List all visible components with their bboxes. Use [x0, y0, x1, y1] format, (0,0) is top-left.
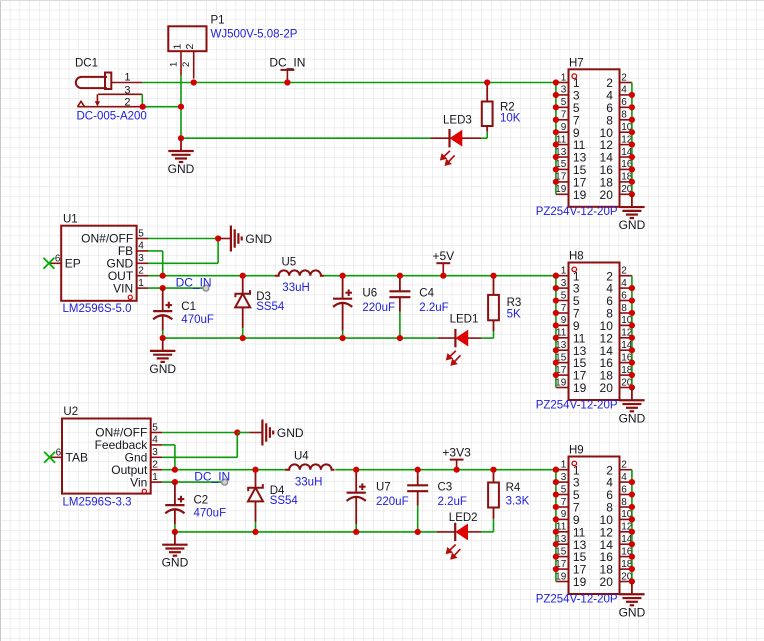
- U2 pin numbers: [152, 422, 158, 483]
- connector H8 pin names: [573, 269, 613, 395]
- svg-text:5: 5: [561, 97, 567, 108]
- capacitor C3: [407, 470, 428, 532]
- junction D3 top: [240, 273, 246, 279]
- U1 pin stubs right: [137, 239, 148, 289]
- wire U1 GND pin to drop: [148, 262, 218, 264]
- svg-text:GND: GND: [619, 605, 646, 619]
- junction U1 ON#/OFF ground: [215, 235, 221, 241]
- wire U1 VIN to DC_IN: [148, 287, 206, 289]
- dangling wire end circle DC_IN: [203, 285, 209, 291]
- svg-text:WJ500V-5.08-2P: WJ500V-5.08-2P: [211, 28, 298, 40]
- svg-text:7: 7: [561, 303, 567, 314]
- junction +5V flag: [440, 273, 446, 279]
- svg-text:3: 3: [152, 447, 158, 458]
- svg-text:C2: C2: [194, 495, 209, 507]
- junction R2 top / DC_IN rail: [484, 79, 490, 85]
- svg-text:1: 1: [561, 460, 567, 471]
- inductor U4: [285, 464, 334, 469]
- P1 pin 2: [193, 51, 195, 78]
- wire DC_IN top rail: [142, 82, 556, 84]
- connector H9 body: [569, 457, 620, 595]
- svg-text:3: 3: [124, 84, 130, 96]
- svg-text:LM2596S-3.3: LM2596S-3.3: [63, 496, 132, 508]
- svg-text:H7: H7: [569, 57, 584, 69]
- connector H8 right pins 2-20: [620, 276, 632, 388]
- junction dots H9 right bus: [629, 479, 635, 585]
- junction +3V3 flag: [454, 467, 460, 473]
- wire DC1 pin3 drop: [141, 94, 143, 106]
- junction D4 top: [252, 467, 258, 473]
- DC1 pin 2 with switch contact: [78, 94, 143, 106]
- svg-text:7: 7: [561, 497, 567, 508]
- svg-text:EP: EP: [65, 257, 81, 271]
- ground GND under C2: [162, 532, 189, 570]
- IC U2 body: [62, 419, 151, 494]
- DC1 pin 3: [98, 93, 142, 95]
- svg-text:GND: GND: [245, 232, 272, 246]
- svg-text:2: 2: [152, 460, 158, 471]
- junction U2 ON#/OFF ground: [234, 429, 240, 435]
- svg-text:20: 20: [600, 188, 614, 202]
- svg-text:3.3K: 3.3K: [506, 495, 530, 507]
- wire H7 left bus: [555, 83, 557, 195]
- wire +3V3 rail right part: [335, 469, 556, 471]
- connector H9 right pins 2-20: [620, 470, 632, 582]
- svg-text:LM2596S-5.0: LM2596S-5.0: [63, 303, 132, 315]
- power flag +5V: [432, 249, 454, 276]
- svg-text:19: 19: [573, 381, 587, 395]
- svg-text:2: 2: [138, 266, 144, 277]
- connector H8 pin numbers: [555, 266, 633, 389]
- svg-text:1: 1: [138, 278, 144, 289]
- svg-text:1: 1: [561, 72, 567, 83]
- svg-text:2.2uF: 2.2uF: [419, 302, 448, 314]
- svg-text:20: 20: [600, 381, 614, 395]
- svg-text:4: 4: [621, 278, 627, 289]
- wire +5V rail right part: [324, 275, 556, 277]
- svg-text:SS54: SS54: [256, 301, 285, 313]
- wire U2 ON#/OFF ground drop: [236, 433, 238, 458]
- svg-text:+3V3: +3V3: [442, 445, 471, 459]
- capacitor C2: [165, 482, 184, 532]
- svg-text:1: 1: [171, 44, 183, 50]
- svg-text:7: 7: [561, 110, 567, 121]
- svg-text:GND: GND: [168, 162, 195, 176]
- junction C2 / ground rail: [172, 529, 178, 535]
- ground H9: [619, 581, 646, 619]
- U2 pin names: [95, 426, 149, 494]
- P1 pin 1: [180, 51, 182, 76]
- wire P1 pin1 vertical: [180, 76, 182, 138]
- ground H7: [619, 194, 646, 232]
- svg-text:4: 4: [621, 85, 627, 96]
- svg-text:1: 1: [561, 266, 567, 277]
- svg-text:19: 19: [555, 184, 567, 195]
- wire LED1 pins: [438, 337, 494, 339]
- svg-text:U5: U5: [282, 256, 297, 268]
- junction DC_IN flag: [284, 79, 290, 85]
- svg-text:LED2: LED2: [449, 512, 478, 524]
- wire H9 right bus: [631, 470, 633, 582]
- svg-text:PZ254V-12-20P: PZ254V-12-20P: [536, 399, 618, 411]
- svg-text:5: 5: [561, 484, 567, 495]
- svg-text:PZ254V-12-20P: PZ254V-12-20P: [536, 206, 618, 218]
- svg-text:3: 3: [561, 85, 567, 96]
- svg-text:LED1: LED1: [450, 313, 479, 325]
- no-connect X on U1 EP: [43, 258, 54, 269]
- svg-text:19: 19: [555, 571, 567, 582]
- svg-text:U1: U1: [63, 213, 78, 225]
- svg-text:1: 1: [152, 472, 158, 483]
- svg-text:4: 4: [152, 435, 158, 446]
- IC U1 body: [61, 226, 136, 301]
- connector H7 body: [569, 69, 620, 207]
- svg-text:4: 4: [621, 472, 627, 483]
- svg-text:470uF: 470uF: [181, 314, 214, 326]
- connector H9 pin numbers: [555, 460, 633, 583]
- svg-text:6: 6: [55, 253, 61, 264]
- svg-text:470uF: 470uF: [194, 508, 227, 520]
- resistor R2: [482, 83, 493, 139]
- junction +5V rail / H8 bus: [553, 273, 559, 279]
- svg-text:SS54: SS54: [270, 495, 299, 507]
- junction VIN / C1: [160, 285, 166, 291]
- net flag DC_IN top: [269, 56, 305, 83]
- connector H8 left pins 1-19: [556, 276, 569, 388]
- wire bottom ground rail: [175, 531, 437, 533]
- svg-text:2: 2: [621, 460, 627, 471]
- junction D3 bottom: [240, 335, 246, 341]
- junction U7 top: [353, 467, 359, 473]
- capacitor U6: [333, 276, 352, 338]
- svg-text:VIN: VIN: [113, 281, 133, 295]
- svg-text:8: 8: [621, 497, 627, 508]
- svg-text:2: 2: [621, 72, 627, 83]
- capacitor C4: [389, 276, 410, 338]
- junction Feedback/Output: [172, 467, 178, 473]
- svg-text:GND: GND: [619, 218, 646, 232]
- connector H7 right pins 2-20: [620, 83, 632, 195]
- svg-text:LED3: LED3: [443, 115, 472, 127]
- svg-text:5: 5: [138, 228, 144, 239]
- capacitor C1: [153, 288, 172, 338]
- svg-text:8: 8: [621, 110, 627, 121]
- resistor R3: [488, 276, 499, 339]
- wire LED2 pins: [437, 531, 494, 533]
- svg-text:220uF: 220uF: [362, 302, 395, 314]
- junction C4 top: [397, 273, 403, 279]
- wire H7 right bus: [631, 83, 633, 195]
- svg-text:5: 5: [152, 422, 158, 433]
- wire +5V rail left part: [148, 275, 274, 277]
- svg-text:33uH: 33uH: [295, 476, 323, 488]
- svg-text:9: 9: [561, 509, 567, 520]
- junction R3 top: [490, 273, 496, 279]
- U1 pin 6 EP: [49, 253, 81, 270]
- junction DC1 pin2/pin3: [140, 104, 146, 110]
- svg-text:1: 1: [124, 71, 130, 83]
- ground GND under DC jack net: [168, 138, 195, 176]
- U2 pin stubs right: [151, 433, 162, 483]
- svg-text:C3: C3: [438, 482, 453, 494]
- ground H8: [619, 387, 646, 425]
- inductor U5: [275, 270, 324, 275]
- svg-text:6: 6: [621, 97, 627, 108]
- svg-text:19: 19: [573, 188, 587, 202]
- connector H7 left pins 1-19: [556, 83, 569, 195]
- junction D4 bottom: [252, 529, 258, 535]
- junction C1 / ground rail: [160, 335, 166, 341]
- svg-text:DC_IN: DC_IN: [194, 469, 230, 483]
- junction C4 bottom: [397, 335, 403, 341]
- junction dots H8 right bus: [629, 285, 635, 391]
- wire U1 ON#/OFF to ground: [148, 238, 218, 240]
- svg-text:Vin: Vin: [130, 475, 147, 489]
- svg-text:19: 19: [555, 377, 567, 388]
- svg-text:3: 3: [561, 472, 567, 483]
- svg-text:2: 2: [181, 62, 192, 67]
- svg-text:R3: R3: [507, 297, 522, 309]
- wire U1 FB drop to OUT: [162, 251, 164, 276]
- ground GND sideways U1: [231, 226, 273, 252]
- ground GND sideways U2: [262, 420, 304, 446]
- wire DC1 pin2 to P1 pin1: [142, 106, 181, 108]
- wire +3V3 rail left part: [162, 469, 285, 471]
- svg-text:DC_IN: DC_IN: [176, 275, 212, 289]
- wire U2 Feedback: [162, 444, 175, 446]
- wire H8 left bus: [555, 276, 557, 388]
- junction Vin / C2: [172, 479, 178, 485]
- connector P1 body: [168, 26, 206, 51]
- svg-text:6: 6: [621, 290, 627, 301]
- svg-text:33uH: 33uH: [282, 282, 310, 294]
- junction U6 bottom: [340, 335, 346, 341]
- svg-text:3: 3: [138, 253, 144, 264]
- wire stub to side ground U2: [237, 432, 262, 434]
- svg-text:5K: 5K: [507, 308, 521, 320]
- junction ground row at GND symbol: [178, 135, 184, 141]
- svg-text:2: 2: [621, 266, 627, 277]
- junction +3V3 rail / H9 bus: [553, 467, 559, 473]
- junction P1 pin1 / ground net: [178, 104, 184, 110]
- svg-text:220uF: 220uF: [376, 496, 409, 508]
- wire U2 ON#/OFF to ground: [162, 432, 237, 434]
- svg-text:H9: H9: [569, 445, 584, 457]
- connector H7 pin names: [573, 76, 613, 202]
- svg-text:19: 19: [573, 575, 587, 589]
- wire H8 right bus: [631, 276, 633, 388]
- svg-text:GND: GND: [162, 556, 189, 570]
- U1 pin numbers: [138, 228, 144, 289]
- connector H9 left pins 1-19: [556, 470, 569, 582]
- svg-text:9: 9: [561, 315, 567, 326]
- power flag +3V3: [442, 445, 471, 469]
- LED LED3: [441, 129, 462, 165]
- wire LED3 anode to R2: [431, 137, 488, 139]
- diode D4: [248, 470, 263, 532]
- svg-text:PZ254V-12-20P: PZ254V-12-20P: [536, 593, 618, 605]
- connector H9 pin names: [573, 463, 613, 589]
- svg-text:H8: H8: [569, 251, 584, 263]
- svg-text:+5V: +5V: [432, 249, 454, 263]
- svg-text:10K: 10K: [500, 112, 521, 124]
- wire ON#/OFF ground drop: [217, 239, 219, 264]
- junction dots H8 left bus: [553, 273, 559, 379]
- junction C3 top: [415, 467, 421, 473]
- svg-text:4: 4: [138, 241, 144, 252]
- wire U2 Gnd pin to drop: [162, 456, 237, 458]
- wire U1 FB: [148, 250, 163, 252]
- capacitor U7: [347, 470, 366, 532]
- junction U7 bottom: [353, 529, 359, 535]
- svg-text:GND: GND: [619, 411, 646, 425]
- svg-text:U2: U2: [63, 406, 78, 418]
- junction dots H7 left bus: [553, 79, 559, 185]
- junction FB/OUT: [160, 273, 166, 279]
- junction P1 pin2 / DC_IN rail: [191, 79, 197, 85]
- junction C3 bottom: [415, 529, 421, 535]
- svg-text:2: 2: [184, 44, 196, 50]
- dangling wire end circle DC_IN bottom: [222, 479, 228, 485]
- svg-text:P1: P1: [211, 15, 225, 27]
- wire mid ground rail: [163, 337, 438, 339]
- resistor R4: [488, 470, 499, 532]
- junction U6 top: [340, 273, 346, 279]
- svg-text:9: 9: [561, 122, 567, 133]
- wire U2 Feedback drop to Output: [174, 445, 176, 470]
- DC1 pin 1: [111, 82, 142, 84]
- svg-text:C4: C4: [419, 288, 434, 300]
- svg-text:DC1: DC1: [75, 57, 98, 69]
- svg-text:U7: U7: [376, 482, 391, 494]
- svg-text:C1: C1: [181, 301, 196, 313]
- svg-text:U4: U4: [294, 451, 309, 463]
- svg-text:GND: GND: [149, 362, 176, 376]
- svg-text:R4: R4: [506, 482, 521, 494]
- svg-text:TAB: TAB: [66, 451, 88, 465]
- svg-text:DC_IN: DC_IN: [269, 56, 305, 70]
- connector H8 body: [569, 263, 620, 401]
- diode D3: [235, 276, 250, 338]
- svg-text:6: 6: [621, 484, 627, 495]
- wire ground row to LED3: [181, 137, 431, 139]
- LED LED2: [447, 523, 468, 559]
- no-connect X on U2 TAB: [44, 452, 55, 463]
- U2 pin 6 TAB: [50, 447, 88, 464]
- svg-text:1: 1: [169, 62, 180, 67]
- junction dots H7 right bus: [629, 92, 635, 198]
- wire stub to side ground U1: [218, 238, 231, 240]
- svg-text:DC-005-A200: DC-005-A200: [77, 110, 147, 122]
- wire U2 Vin to DC_IN: [162, 481, 225, 483]
- svg-text:8: 8: [621, 303, 627, 314]
- connector DC1 barrel jack symbol: [76, 73, 112, 90]
- svg-text:5: 5: [561, 290, 567, 301]
- junction dots H9 left bus: [553, 467, 559, 573]
- svg-text:U6: U6: [362, 288, 377, 300]
- svg-text:6: 6: [56, 447, 62, 458]
- junction R4 top: [490, 467, 496, 473]
- LED LED1: [447, 329, 468, 365]
- U1 pin names: [81, 232, 134, 300]
- ground GND under C1: [149, 338, 176, 376]
- connector H7 pin numbers: [555, 72, 633, 195]
- svg-text:3: 3: [561, 278, 567, 289]
- wire H9 left bus: [555, 470, 557, 582]
- svg-text:2.2uF: 2.2uF: [438, 496, 467, 508]
- svg-text:2: 2: [124, 97, 130, 109]
- svg-text:GND: GND: [277, 426, 304, 440]
- svg-text:20: 20: [600, 575, 614, 589]
